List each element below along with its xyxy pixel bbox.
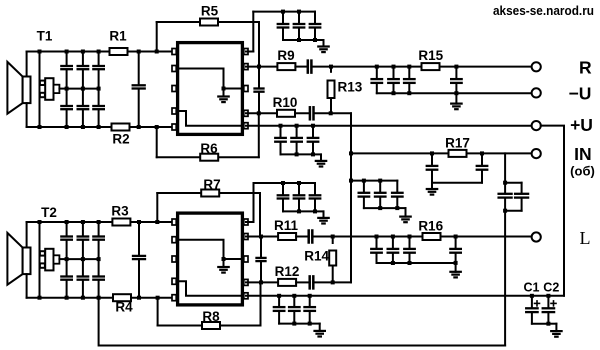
wire R9 to series cap: [295, 66, 307, 68]
svg-text:R2: R2: [112, 132, 129, 147]
ground U2 internal: [223, 259, 225, 267]
capacitor group C 2: [298, 183, 300, 194]
svg-text:+U: +U: [570, 115, 593, 135]
junction group E tap: [349, 179, 353, 183]
wire R13 bottom lead: [330, 98, 332, 113]
wire R16 to L terminal: [441, 236, 532, 238]
capacitor pair 1: [504, 183, 506, 193]
junction R7 tap: [155, 220, 159, 224]
wire R6 right riser to R10 node: [258, 113, 260, 157]
capacitor C1: [531, 296, 533, 308]
jack J1 left tab 2: [40, 93, 45, 97]
wire +U rail 2: [246, 295, 564, 297]
wire group A bottom bus: [283, 39, 315, 41]
wire cap pair bottom link: [505, 210, 521, 212]
capacitor L filter 3: [409, 237, 411, 248]
ground group C: [323, 211, 325, 218]
capacitor IN 2: [481, 153, 483, 165]
wire R13 top lead: [330, 67, 332, 72]
terminal L: [532, 232, 541, 241]
wire group C riser: [253, 183, 255, 222]
junctions group E top: [362, 179, 366, 183]
wire feedback vertical: [350, 113, 352, 282]
capacitor T1 bank bottom 3: [98, 89, 100, 105]
wire R10 row: [246, 112, 277, 114]
svg-text:R14: R14: [304, 249, 329, 264]
capacitor T1 bank top 1: [66, 52, 68, 66]
junctions +U bypass caps: [279, 124, 283, 128]
wire T1 middle bus: [67, 88, 99, 90]
jack J2 body: [45, 249, 53, 271]
svg-text:R7: R7: [203, 177, 220, 192]
capacitor R filter 2: [393, 67, 395, 79]
svg-text:(об): (об): [570, 164, 595, 179]
resistor R17: [449, 150, 467, 157]
capacitor group E 3: [396, 181, 398, 192]
speaker T2 driver body: [23, 248, 31, 275]
wire C1 C2 bottom bus: [532, 323, 549, 325]
wire R8 bottom: [158, 325, 261, 327]
op-amp U1 right pins: [244, 49, 248, 55]
resistor R10: [277, 110, 295, 117]
wire speaker T2 bottom lead: [26, 274, 28, 298]
resistor R2: [112, 124, 130, 131]
capacitor series after R12: [308, 276, 311, 288]
wire U1 internal input trace: [179, 69, 242, 89]
ground +U bypass: [320, 154, 322, 161]
junction IN cap 1: [430, 151, 434, 155]
svg-text:R10: R10: [273, 95, 298, 110]
svg-text:R13: R13: [338, 80, 363, 95]
junction after R15: [454, 65, 458, 69]
capacitor L filter 1: [376, 237, 378, 248]
wire R5 left riser: [156, 22, 158, 52]
junctions group A bottom: [297, 38, 301, 42]
capacitor group C 3: [314, 183, 316, 194]
resistor R4: [113, 294, 131, 301]
wire R6 bottom: [157, 156, 259, 158]
wire top rail L channel: [27, 221, 176, 223]
speaker T1 cone: [7, 62, 22, 114]
capacitor input R channel: [138, 52, 140, 85]
wire group E to ground: [397, 207, 405, 209]
wire R11 row: [246, 236, 279, 238]
wire U1 internal bottom trace: [179, 111, 242, 126]
resistor R15: [422, 63, 440, 70]
ground L filter: [455, 263, 457, 272]
ground group A: [323, 40, 325, 47]
svg-text:R9: R9: [277, 48, 294, 63]
wire R7 top: [157, 192, 260, 194]
junction R13 top: [329, 65, 333, 69]
capacitor T1 bank bottom 1: [66, 89, 68, 105]
junctions group C top: [281, 181, 285, 185]
wire +U2 bypass bottom bus: [279, 323, 310, 325]
junctions T1 top rail: [38, 50, 42, 54]
junctions T2 bottom rail: [38, 296, 42, 300]
wire +U2 bypass to ground: [310, 323, 320, 325]
wire speaker T1 top lead to top rail: [26, 52, 28, 77]
op-amp U2 right pins: [244, 219, 248, 225]
jack J1 right tab: [54, 85, 60, 93]
wire speaker T2 top lead: [26, 222, 28, 248]
ground -U bus: [455, 93, 457, 103]
wire R5 right drop to R9 node: [258, 22, 260, 67]
capacitor C2: [547, 296, 549, 308]
wire R8 left drop: [157, 298, 159, 326]
capacitor T2 bank top 3: [98, 222, 100, 236]
svg-text:T2: T2: [41, 205, 57, 220]
capacitor IN 1: [431, 153, 433, 165]
svg-text:R3: R3: [111, 204, 129, 219]
resistor R16: [423, 233, 441, 240]
wire R7 right drop to R11 node: [259, 193, 261, 237]
wire R6 left drop: [156, 127, 158, 157]
wire R14 top lead: [332, 237, 334, 244]
junction IN cap 2: [480, 151, 484, 155]
junctions group C bottom: [297, 209, 301, 213]
wire jack J2 output: [59, 258, 66, 260]
svg-text:akses-se.narod.ru: akses-se.narod.ru: [493, 4, 594, 18]
resistor R13: [328, 81, 335, 99]
junctions group E bottom: [378, 206, 382, 210]
wire bottom rail R channel: [27, 126, 176, 128]
jack J2 right tab: [54, 255, 60, 263]
junction R7/R11: [259, 235, 263, 239]
capacitor T1 bank bottom 2: [82, 89, 84, 105]
wire jack J1 vertical: [39, 52, 41, 128]
wire R7 left riser: [156, 193, 158, 222]
capacitor R filter 3: [408, 67, 410, 79]
junction input cap top: [137, 50, 141, 54]
wire pin1R stub: [246, 51, 253, 53]
capacitor bridge R11-R12: [260, 237, 262, 257]
junction cap pair bottom: [503, 209, 507, 213]
junction input cap2 bottom: [137, 296, 141, 300]
capacitor group A 1: [282, 12, 284, 23]
capacitor R filter 1: [376, 67, 378, 79]
capacitor group E 1: [363, 181, 365, 192]
wire +U bypass bottom bus: [281, 153, 314, 155]
resistor R12: [278, 279, 296, 286]
junctions L filter bottom: [391, 261, 395, 265]
wire group C top bus: [254, 182, 316, 184]
junctions group A top: [281, 10, 285, 14]
junctions T2 top rail: [38, 220, 42, 224]
junctions L filter caps top: [375, 235, 379, 239]
capacitor L filter 2: [392, 237, 394, 248]
junction input cap2 top: [137, 220, 141, 224]
junction C2 bottom: [546, 322, 550, 326]
junction R5 tap on top rail: [155, 50, 159, 54]
ground U1 internal: [223, 89, 225, 97]
wire bottom return: [99, 298, 506, 346]
wire R11 to series cap: [296, 236, 309, 238]
capacitor series after R9: [307, 61, 310, 73]
capacitor group A 2: [298, 12, 300, 23]
junctions +U bypass bottom: [295, 152, 299, 156]
capacitor T1 bank top 3: [98, 52, 100, 66]
capacitor group E 2: [379, 181, 381, 192]
capacitor +U bypass 2: [296, 126, 298, 137]
wire bottom rail L channel: [27, 297, 176, 299]
capacitor T2 bank top 1: [66, 222, 68, 236]
wire jack J1 output to cap bank: [59, 88, 66, 90]
junction C1 top: [530, 294, 534, 298]
capacitor after R16: [455, 237, 457, 248]
resistor R7: [201, 190, 219, 197]
svg-text:R17: R17: [445, 136, 470, 151]
wire U2 pin1R stub: [246, 221, 254, 223]
wire group A top bus: [253, 11, 315, 13]
capacitor +U2 bypass 3: [309, 296, 311, 306]
junction R6 tap on bottom rail: [155, 125, 159, 129]
wire IN row: [351, 152, 532, 154]
wire IN drop lower: [504, 211, 506, 346]
svg-text:L: L: [580, 228, 591, 248]
op-amp U2 body: [178, 213, 243, 305]
svg-text:IN: IN: [574, 144, 592, 164]
capacitor +U bypass 3: [312, 126, 314, 137]
resistor R9: [277, 63, 295, 70]
wire L row to R16: [377, 236, 423, 238]
junctions R filter caps top: [375, 65, 379, 69]
junction R13 bottom: [329, 111, 333, 115]
resistor R6: [200, 154, 218, 161]
junction R14 bottom: [331, 280, 335, 284]
jack J1 left tab 1: [40, 81, 45, 85]
wire U2 internal input trace: [179, 240, 242, 259]
wire +U terminal to right edge: [541, 126, 564, 296]
wire C bus to ground: [548, 323, 556, 325]
wire IN caps bottom bus: [432, 182, 482, 184]
resistor R1: [110, 48, 128, 55]
wire group C to ground: [315, 210, 324, 212]
wire R14 bottom lead: [332, 266, 334, 283]
ground +U2 bypass: [319, 324, 321, 331]
junction R14 top: [331, 235, 335, 239]
junctions T1 middle bus: [65, 87, 69, 91]
capacitor after R15: [455, 67, 457, 79]
plus mark C2: [551, 302, 556, 304]
terminal IN: [532, 149, 541, 158]
svg-text:R5: R5: [201, 4, 219, 19]
wire +U bypass to ground: [313, 153, 321, 155]
wire group E bottom bus: [364, 207, 397, 209]
svg-text:C2: C2: [543, 281, 559, 295]
svg-text:R15: R15: [418, 48, 443, 63]
junctions -U bus: [392, 91, 396, 95]
svg-text:T1: T1: [37, 29, 53, 44]
junction R5/R9: [257, 65, 261, 69]
capacitor group C 1: [282, 183, 284, 194]
plus mark C1: [535, 302, 540, 304]
wire group C bottom bus: [283, 210, 315, 212]
op-amp U1 left pins: [172, 49, 176, 55]
junction R8 tap: [156, 296, 160, 300]
wire U2 internal bottom trace: [179, 281, 242, 296]
capacitor group A 3: [314, 12, 316, 23]
wire T2 middle bus: [67, 258, 99, 260]
wire R10 to series cap: [295, 112, 310, 114]
wire R15 to R terminal: [440, 66, 532, 68]
svg-text:C1: C1: [524, 281, 540, 295]
svg-text:R12: R12: [275, 264, 300, 279]
svg-text:R16: R16: [418, 219, 443, 234]
resistor R3: [112, 219, 130, 226]
capacitor input L channel: [138, 222, 140, 255]
wire R11 cap to L filter: [312, 236, 376, 238]
ground C1 C2: [555, 324, 557, 331]
wire L filter bottom bus: [377, 262, 456, 264]
capacitor pair 2: [521, 183, 523, 193]
op-amp U1 body: [178, 43, 243, 135]
svg-text:R11: R11: [274, 218, 299, 233]
wire jack J2 vertical: [39, 222, 41, 298]
jack J1 body: [45, 78, 53, 100]
junctions T1 bottom rail: [38, 125, 42, 129]
capacitor series after R10: [309, 107, 312, 119]
capacitor bridge R9-R10: [258, 67, 260, 87]
wire -U bus: [377, 92, 532, 94]
capacitor +U bypass 1: [280, 126, 282, 137]
junctions +U2 bypass bottom: [292, 322, 296, 326]
ground group E: [405, 208, 407, 217]
wire group E top bus: [351, 180, 397, 182]
resistor R14: [329, 251, 336, 266]
capacitor T2 bank top 2: [82, 222, 84, 236]
junction U2 internal ground node: [222, 257, 226, 261]
resistor R8: [202, 322, 220, 329]
junctions T2 middle bus: [65, 257, 69, 261]
jack J2 left tab 2: [40, 263, 45, 267]
junction R8/R12: [259, 280, 263, 284]
wire R8 right riser to R12 node: [260, 282, 262, 325]
terminal -U: [532, 88, 541, 97]
wire R9 cap to R filter: [311, 66, 376, 68]
speaker T2 cone: [7, 233, 22, 285]
resistor R11: [278, 233, 296, 240]
junction R6/R10: [257, 111, 261, 115]
wire group A to ground: [315, 39, 324, 41]
wire R12 row: [246, 281, 279, 283]
junctions +U2 bypass caps: [277, 294, 281, 298]
svg-text:R: R: [579, 58, 592, 78]
capacitor T2 bank bottom 2: [82, 259, 84, 275]
wire speaker T1 bottom lead to bottom rail: [26, 103, 28, 127]
capacitor series after R11: [307, 231, 310, 243]
junction U1 internal ground node: [222, 87, 226, 91]
svg-text:−U: −U: [569, 84, 592, 104]
junction C2 top: [546, 294, 550, 298]
junction input cap bottom: [137, 125, 141, 129]
wire R5 top: [157, 21, 259, 23]
wire R10 cap to IN drop: [314, 112, 352, 114]
wire +U rail: [246, 125, 532, 127]
wire R12 cap to feedback vertical: [313, 281, 351, 283]
svg-text:R8: R8: [202, 309, 220, 324]
ground IN caps: [431, 183, 433, 189]
svg-text:R1: R1: [109, 29, 127, 44]
capacitor T2 bank bottom 3: [98, 259, 100, 275]
svg-text:R6: R6: [200, 141, 218, 156]
resistor R5: [200, 19, 218, 26]
wire group A riser: [252, 12, 254, 52]
svg-text:R4: R4: [115, 300, 133, 315]
wire top rail R channel: [27, 51, 176, 53]
capacitor T1 bank top 2: [82, 52, 84, 66]
junction cap pair top: [503, 181, 507, 185]
capacitor T2 bank bottom 1: [66, 259, 68, 275]
junction IN tap: [349, 151, 353, 155]
wire IN drop upper: [504, 153, 506, 182]
wire R row to R15: [377, 66, 422, 68]
wire R9 row: [246, 66, 277, 68]
op-amp U2 left pins: [172, 219, 176, 225]
terminal R: [532, 62, 541, 71]
terminal +U: [532, 121, 541, 130]
capacitor +U2 bypass 2: [293, 296, 295, 306]
speaker T1 driver body: [23, 77, 31, 104]
capacitor +U2 bypass 1: [278, 296, 280, 306]
wire cap pair top link: [505, 182, 521, 184]
wire R12 to series cap: [296, 281, 310, 283]
jack J2 left tab 1: [40, 251, 45, 255]
junction after R16: [454, 235, 458, 239]
